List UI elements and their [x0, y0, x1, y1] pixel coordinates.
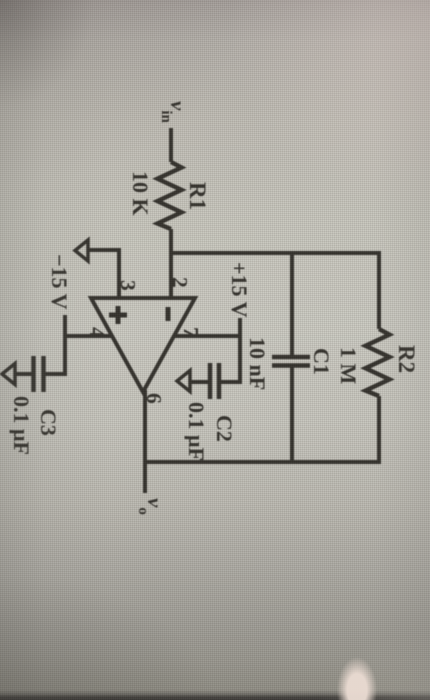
svg-text:−15 V: −15 V — [47, 254, 72, 310]
op-amp plus sign — [109, 306, 127, 324]
ground pin3 — [75, 240, 88, 261]
svg-text:C2: C2 — [212, 415, 237, 442]
svg-text:C3: C3 — [36, 409, 61, 436]
wire R2 to right rail — [377, 396, 381, 462]
op-amp minus sign — [166, 307, 171, 321]
svg-text:vin: vin — [158, 101, 190, 123]
capacitor C1 — [272, 357, 310, 366]
wire -15V rail — [46, 315, 66, 374]
wire pin 3 to ground — [88, 250, 119, 298]
svg-text:0.1 μF: 0.1 μF — [9, 396, 34, 455]
svg-text:vo: vo — [135, 498, 167, 515]
svg-text:10 K: 10 K — [128, 171, 153, 216]
resistor R1 — [158, 162, 182, 229]
wire output pin 6 to vo — [143, 390, 147, 493]
wire vin to R1 — [169, 128, 173, 162]
wire pin 4 to -15V rail — [65, 334, 112, 338]
wire C1 branch left — [290, 253, 294, 355]
ground C3 — [2, 364, 15, 385]
capacitor C3 — [34, 356, 44, 392]
wire C3 to ground — [15, 372, 32, 376]
op-amp U1 — [91, 298, 195, 392]
wire feedback top left to R2 — [377, 251, 381, 329]
wire C1 branch right — [290, 368, 294, 463]
svg-text:+15 V: +15 V — [227, 262, 252, 318]
svg-text:R2: R2 — [394, 345, 419, 373]
wire R1 to node A — [169, 229, 173, 253]
wire pin 7 to +15V rail — [174, 334, 240, 338]
wire node A to pin 2 — [169, 253, 173, 298]
svg-text:1 M: 1 M — [336, 347, 361, 385]
svg-text:0.1 μF: 0.1 μF — [184, 402, 209, 461]
wire C2 to ground — [190, 380, 208, 384]
svg-text:C1: C1 — [309, 348, 334, 375]
capacitor C2 — [210, 363, 219, 399]
ground C2 — [177, 371, 190, 392]
wire +15V rail — [221, 318, 240, 382]
resistor R2 — [366, 329, 390, 396]
wire node A up to feedback — [171, 251, 379, 255]
svg-text:10 nF: 10 nF — [245, 337, 270, 390]
svg-text:2: 2 — [168, 277, 192, 288]
wire right rail — [145, 460, 381, 464]
svg-text:R1: R1 — [185, 182, 210, 210]
